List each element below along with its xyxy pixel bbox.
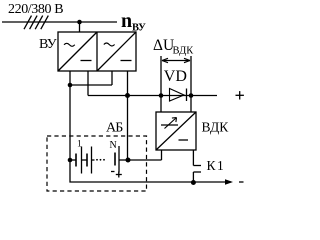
svg-text:ВУ: ВУ (132, 23, 146, 34)
svg-text:n: n (121, 10, 132, 32)
svg-text:ВДК: ВДК (173, 46, 195, 57)
svg-text:ВУ: ВУ (39, 37, 57, 52)
svg-text:АБ: АБ (106, 121, 123, 136)
svg-text:ВДК: ВДК (202, 120, 230, 135)
svg-text:1: 1 (77, 140, 82, 150)
svg-text:N: N (110, 140, 117, 151)
svg-text:VD: VD (164, 68, 187, 85)
svg-text:220/380 В: 220/380 В (8, 2, 63, 17)
svg-text:К1: К1 (207, 158, 226, 173)
svg-text:ΔU: ΔU (153, 37, 174, 54)
